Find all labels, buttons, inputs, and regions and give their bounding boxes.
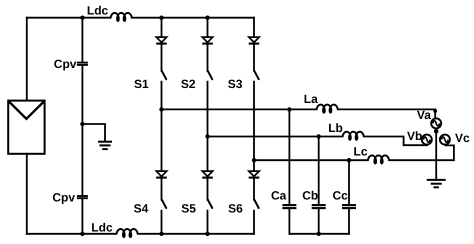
svg-text:Lb: Lb bbox=[328, 121, 343, 135]
wire phase A bbox=[162, 109, 436, 118]
svg-text:Va: Va bbox=[417, 108, 431, 122]
svg-text:Cb: Cb bbox=[302, 188, 318, 202]
svg-text:S5: S5 bbox=[181, 202, 196, 216]
svg-text:S4: S4 bbox=[134, 202, 149, 216]
node top rail / leg2 bbox=[205, 16, 209, 20]
wire phase C bbox=[254, 145, 454, 160]
voltage source Vc bbox=[440, 135, 450, 145]
wire capacitor star rail bbox=[289, 233, 349, 235]
switch S5 bbox=[208, 200, 213, 209]
node bottom rail / Cpv bbox=[80, 232, 84, 236]
voltage source Vb bbox=[422, 135, 432, 145]
inductor Lc bbox=[368, 155, 389, 163]
node top rail / Cpv bbox=[80, 16, 84, 20]
wire top rail bbox=[27, 17, 254, 19]
switch S4 bbox=[162, 200, 167, 209]
wire leg1 vertical segments bbox=[161, 18, 163, 234]
switch S6 bbox=[254, 200, 259, 209]
svg-text:Cpv: Cpv bbox=[54, 57, 77, 71]
diode D6 bbox=[249, 171, 260, 178]
svg-text:Lc: Lc bbox=[354, 145, 368, 159]
wire Cb branch bbox=[318, 137, 320, 234]
svg-text:Vc: Vc bbox=[455, 131, 470, 145]
wire Cpv branch vertical bbox=[81, 18, 83, 234]
switch S1 bbox=[162, 71, 167, 80]
switch S3 bbox=[254, 71, 259, 80]
svg-text:Ca: Ca bbox=[271, 188, 287, 202]
node phase A / Ca bbox=[287, 107, 291, 111]
svg-text:S2: S2 bbox=[181, 77, 196, 91]
capacitor Ca bbox=[282, 205, 296, 208]
wire bottom rail bbox=[27, 233, 254, 235]
node Va corner bbox=[433, 109, 437, 113]
switch S2 bbox=[208, 71, 213, 80]
diode D1 bbox=[156, 37, 167, 44]
svg-text:S6: S6 bbox=[228, 202, 243, 216]
wire left vertical from top rail to PV bbox=[26, 18, 28, 101]
diode D5 bbox=[202, 171, 213, 178]
node phase C / leg3 bbox=[252, 158, 256, 162]
ground (DC midpoint) bbox=[98, 142, 112, 149]
node phase B / Cb bbox=[317, 134, 321, 138]
wire phase B bbox=[208, 137, 428, 146]
inductor Ldc (bottom) bbox=[117, 229, 138, 237]
capacitor Cpv (bottom) bbox=[77, 196, 88, 198]
svg-text:Cpv: Cpv bbox=[52, 190, 75, 204]
node top rail / leg1 bbox=[159, 16, 163, 20]
svg-text:La: La bbox=[304, 92, 318, 106]
svg-text:Vb: Vb bbox=[407, 129, 422, 143]
node bottom rail / leg2 bbox=[205, 232, 209, 236]
inductor La bbox=[317, 105, 338, 113]
wire leg3 vertical segments bbox=[253, 18, 255, 234]
ground (grid neutral) bbox=[427, 180, 446, 187]
diode D3 bbox=[249, 37, 260, 44]
svg-text:Cc: Cc bbox=[333, 188, 349, 202]
node bottom rail / leg1 bbox=[159, 232, 163, 236]
node phase A / leg1 bbox=[159, 107, 163, 111]
diode D2 bbox=[202, 37, 213, 44]
node capacitor star point bbox=[317, 232, 321, 236]
svg-text:S1: S1 bbox=[134, 77, 149, 91]
node phase B / leg2 bbox=[205, 134, 209, 138]
wire Ca branch bbox=[288, 109, 290, 233]
voltage source Va bbox=[431, 118, 441, 128]
node phase C / Cc bbox=[347, 158, 351, 162]
wire source neutral bbox=[435, 129, 437, 181]
inductor Lb bbox=[343, 132, 364, 140]
svg-text:S3: S3 bbox=[228, 77, 243, 91]
PV panel source bbox=[8, 101, 44, 154]
wire leg2 vertical segments bbox=[207, 18, 209, 234]
capacitor Cpv (top) bbox=[77, 63, 88, 65]
svg-text:Ldc: Ldc bbox=[87, 4, 109, 18]
node Cpv midpoint / ground bbox=[80, 122, 84, 126]
diode D4 bbox=[156, 171, 167, 178]
wire Cc branch bbox=[348, 160, 350, 234]
node source neutral bbox=[434, 129, 439, 134]
inductor Ldc (top) bbox=[111, 13, 132, 21]
wire PV bottom to bottom rail bbox=[26, 154, 28, 234]
capacitor Cb bbox=[312, 205, 326, 208]
capacitor Cc bbox=[342, 205, 356, 208]
wire ground stub bbox=[82, 124, 105, 141]
svg-text:Ldc: Ldc bbox=[91, 221, 113, 235]
